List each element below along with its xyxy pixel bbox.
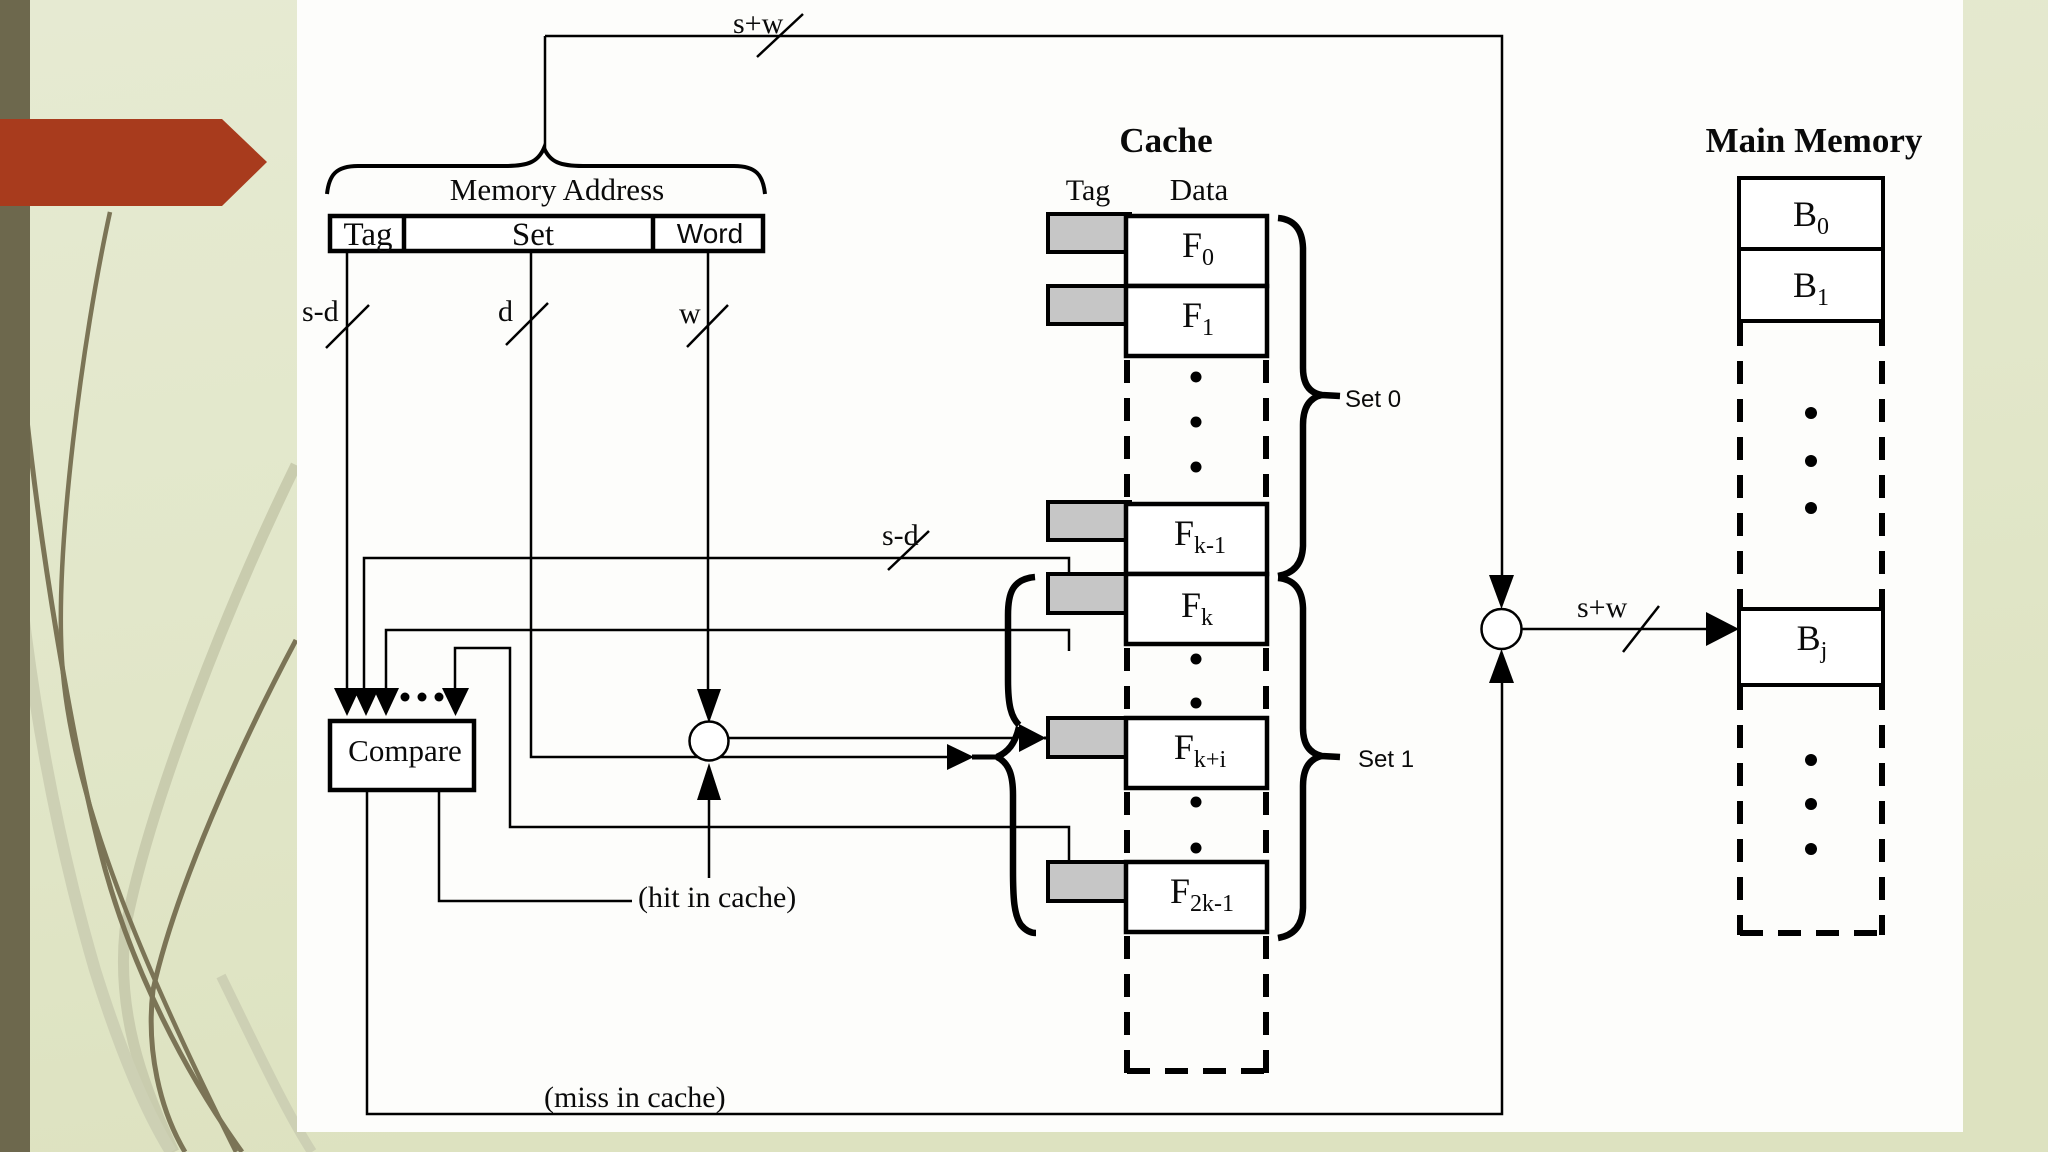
arrowhead into Bj <box>1706 612 1739 646</box>
brace memory address <box>327 148 765 194</box>
svg-text:Cache: Cache <box>1119 121 1212 160</box>
svg-text:d: d <box>498 295 513 328</box>
svg-text:s-d: s-d <box>882 519 919 552</box>
slash tag line <box>326 305 369 348</box>
svg-text:Set 0: Set 0 <box>1345 386 1401 413</box>
memory box B1 <box>1739 249 1883 321</box>
slash word line <box>687 305 728 347</box>
wire hit output <box>439 792 632 901</box>
word circle arrow down <box>697 689 721 723</box>
memory address box <box>330 216 763 251</box>
wire word w down <box>707 253 710 689</box>
slash s+w top <box>757 14 803 57</box>
svg-text:s+w: s+w <box>733 7 784 40</box>
slash set line <box>506 303 548 345</box>
wire s+w top <box>545 36 1502 575</box>
wire hit stem below circle <box>708 799 711 878</box>
compare arrow 1 <box>334 688 360 716</box>
compare arrow 3 <box>373 688 399 716</box>
memory dots upper <box>1805 407 1817 514</box>
tag set divider <box>402 216 407 251</box>
cache dots gap3 <box>1191 797 1202 854</box>
wire tag row B stub <box>386 630 1069 689</box>
cache tag box Fk+i <box>1048 718 1130 757</box>
svg-text:Compare: Compare <box>348 733 462 768</box>
svg-text:Set 1: Set 1 <box>1358 746 1414 773</box>
svg-text:(hit in cache): (hit in cache) <box>638 881 796 914</box>
cache dots set0 <box>1191 372 1202 473</box>
cache data box Fk+i <box>1126 718 1267 788</box>
svg-text:(miss in cache): (miss in cache) <box>544 1081 726 1114</box>
memory dots lower <box>1805 754 1817 855</box>
compare arrow 4 <box>442 688 469 716</box>
word select circle <box>690 722 729 761</box>
cache dots gap2 <box>1191 654 1202 709</box>
memory circle arrow up <box>1489 649 1514 683</box>
slash s+w memory <box>1623 606 1659 652</box>
memory junction circle <box>1482 609 1522 649</box>
cache tag box F1 <box>1048 286 1130 324</box>
svg-text:Memory Address: Memory Address <box>450 172 664 207</box>
set1 right brace <box>1278 578 1340 938</box>
svg-text:s-d: s-d <box>302 295 339 328</box>
compare arrow 2 <box>353 688 379 716</box>
wire tag row A to Fk <box>364 558 1069 689</box>
svg-text:Tag: Tag <box>343 217 392 253</box>
cache tag box Fk-1 <box>1048 502 1130 540</box>
set1 brace notch line <box>972 755 999 760</box>
cache tag box Fk <box>1048 574 1130 613</box>
set word divider <box>651 216 656 251</box>
olive sidebar <box>0 0 30 1152</box>
word circle arrow up <box>697 763 721 800</box>
set select arrowhead <box>947 744 974 770</box>
slash s-d cache <box>888 531 929 570</box>
svg-text:Set: Set <box>512 217 554 253</box>
wire tag s-d down <box>346 253 349 689</box>
brace arrow connector <box>1044 737 1050 740</box>
white canvas <box>297 0 1963 1132</box>
svg-text:Main Memory: Main Memory <box>1706 121 1923 160</box>
wire miss output <box>367 683 1502 1114</box>
cache dashed columns <box>1127 360 1266 1074</box>
cache tag box F0 <box>1048 214 1130 252</box>
cache data box F2k-1 <box>1126 862 1267 932</box>
svg-text:Tag: Tag <box>1066 174 1111 207</box>
wire brace stem <box>544 36 547 150</box>
set0 right brace <box>1278 218 1340 576</box>
red arrow bullet <box>0 119 267 206</box>
svg-text:s+w: s+w <box>1577 591 1628 624</box>
memory dashed columns <box>1740 323 1882 935</box>
brace arrowhead to Fk+i tag <box>1019 724 1046 752</box>
memory circle arrow down <box>1489 575 1514 609</box>
cache data box F1 <box>1126 286 1267 356</box>
svg-text:Word: Word <box>677 218 743 249</box>
compare dots <box>401 693 444 702</box>
cache tag box F2k-1 <box>1048 862 1130 901</box>
cache data box Fk <box>1126 574 1267 644</box>
svg-text:Data: Data <box>1170 172 1229 207</box>
svg-text:w: w <box>679 297 701 330</box>
set1 left brace <box>997 577 1036 933</box>
compare box <box>330 721 474 790</box>
wire set d down <box>531 253 947 757</box>
cache data box Fk-1 <box>1126 504 1267 574</box>
cache data box F0 <box>1126 216 1267 286</box>
wire tag row C to F2k-1 <box>455 648 1069 862</box>
wire s+w to Bj <box>1521 628 1708 631</box>
memory box Bj <box>1739 609 1883 685</box>
memory box B0 <box>1739 178 1883 249</box>
wire word circle out <box>727 737 1013 740</box>
